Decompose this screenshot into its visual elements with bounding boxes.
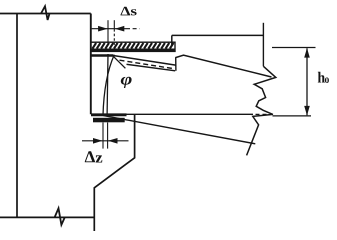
Δz arrow left xyxy=(93,138,103,144)
label Δs glyph Δ xyxy=(121,7,131,16)
h0 arrow up xyxy=(304,48,310,58)
dimension Δz line xyxy=(82,140,129,142)
dimension Δs line xyxy=(92,28,126,30)
column top edge line xyxy=(0,13,91,15)
leader line to phi xyxy=(113,56,125,68)
dimension Δz extension line right xyxy=(107,123,109,149)
beam top edge right of plate xyxy=(176,55,272,77)
plate band end jog xyxy=(175,57,177,71)
break symbol on column top edge xyxy=(41,6,50,20)
rotated top plate band top line xyxy=(113,56,176,66)
top bearing plate (hatched) xyxy=(91,42,175,51)
dimension Δs extension line left xyxy=(107,20,109,45)
label h0 glyph h xyxy=(318,72,325,83)
rotated beam end face xyxy=(103,55,114,116)
label Δs glyph s xyxy=(131,9,137,15)
dimension Δs extension line right (dashed below) xyxy=(113,20,115,29)
original bottom edge dashes at break xyxy=(256,113,267,115)
rotated top plate band bottom line xyxy=(127,64,176,71)
beam section cut vertical xyxy=(262,23,264,67)
column left face wire xyxy=(16,14,18,218)
break symbol on column bottom edge xyxy=(55,208,65,225)
rotated beam bottom edge xyxy=(104,116,256,144)
dimension Δz extension line left xyxy=(102,123,104,149)
h0 dimension line xyxy=(306,48,308,115)
Δs arrow left xyxy=(98,26,108,32)
Δs arrow right xyxy=(115,26,125,32)
label φ glyph xyxy=(121,77,132,88)
label Δz glyph Δ xyxy=(85,151,95,162)
original beam end face xyxy=(106,54,109,115)
Δz arrow right xyxy=(108,138,118,144)
column bottom edge line xyxy=(0,216,94,218)
label Δz glyph z xyxy=(96,155,103,162)
column right face xyxy=(90,14,92,115)
beam haunch top step line xyxy=(172,34,264,36)
beam break zigzag xyxy=(247,66,276,155)
bottom bearing plate (solid) xyxy=(93,118,125,123)
haunch step vertical xyxy=(171,35,173,45)
rotated top plate hidden edge (dashed) xyxy=(120,60,175,69)
original beam top edge stub xyxy=(91,54,113,57)
original beam bottom edge xyxy=(91,113,253,115)
h0 dimension top tick xyxy=(272,47,316,49)
h0 arrow down xyxy=(304,106,310,116)
label h0 glyph 0 xyxy=(325,78,329,84)
h0 dimension bottom tick xyxy=(273,115,312,117)
corbel bracket outline xyxy=(94,115,134,231)
